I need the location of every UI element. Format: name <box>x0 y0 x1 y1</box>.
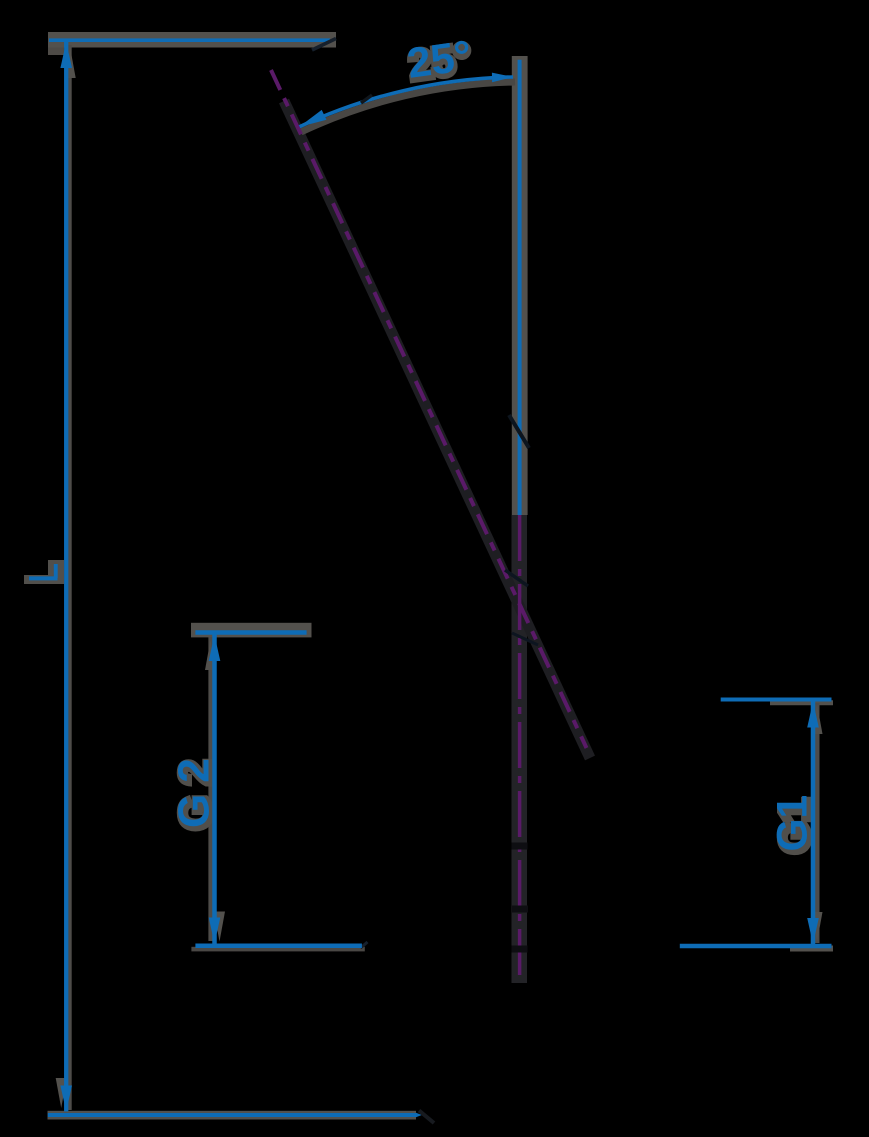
G2 bottom cap <box>195 944 362 949</box>
svg-text:G1: G1 <box>770 795 817 852</box>
pipe dimension line (blue on pipe) <box>518 60 522 515</box>
ceiling dimension extension line <box>49 38 330 42</box>
ghost of left dimension line <box>65 45 72 1110</box>
arc left arrow <box>299 110 327 127</box>
floor line (thick gray) <box>48 1111 417 1120</box>
G1 bottom arrow <box>807 918 819 944</box>
G2 dimension line <box>212 634 217 944</box>
ghost of angle arc <box>301 82 515 132</box>
svg-text:25°: 25° <box>404 32 474 87</box>
ghost of G2 top cap <box>191 623 312 638</box>
left dimension line <box>64 42 68 1112</box>
left line bottom arrow <box>60 1086 72 1112</box>
ghost of G2 arrows <box>205 640 216 670</box>
G1 bottom cap <box>680 944 832 949</box>
ghost of G1 arrows <box>812 704 823 734</box>
ghost of 25deg dashed line <box>284 101 590 758</box>
G2 bottom arrow <box>209 918 221 944</box>
ghost of G1 top cap <box>770 700 833 705</box>
G1 dimension line <box>811 701 816 944</box>
floor break slash <box>419 1111 434 1124</box>
left line top arrow <box>60 42 72 68</box>
centerline band notches <box>512 843 528 850</box>
shower pipe (thick gray upper) <box>512 56 528 515</box>
pipe centerline ghost (dark band lower) <box>512 515 528 983</box>
25deg dashed centerline <box>271 70 587 748</box>
ghost of G1 bottom cap <box>790 946 833 952</box>
ghost block under ceiling left <box>48 48 64 56</box>
ceiling break slash <box>312 39 336 51</box>
vertex dark slash <box>505 570 528 586</box>
G1 top arrow <box>807 702 819 728</box>
vertical dashed centerline <box>518 515 522 978</box>
ghost of G1 vertical line <box>813 703 820 943</box>
svg-text:G2: G2 <box>170 747 219 828</box>
G1 top cap <box>721 698 832 702</box>
ghost of G2 vertical line <box>208 637 215 941</box>
arc break slash <box>361 95 372 103</box>
ceiling line (thick gray) <box>48 32 336 48</box>
ghost of G2 bottom cap <box>191 947 364 952</box>
angle dimension arc <box>299 77 513 127</box>
arc right arrow <box>492 73 513 83</box>
floor dimension extension line <box>48 1113 416 1117</box>
G2 top cap <box>195 630 306 635</box>
ghost of left line top arrow <box>65 48 76 78</box>
ghost of clipped label tick <box>24 560 64 584</box>
pipe break slash <box>509 415 529 448</box>
G2 top arrow <box>209 635 221 661</box>
clipped label tick <box>29 564 58 580</box>
angle arc near vertex <box>512 633 538 645</box>
ghost of left line bottom arrow <box>56 1078 67 1108</box>
